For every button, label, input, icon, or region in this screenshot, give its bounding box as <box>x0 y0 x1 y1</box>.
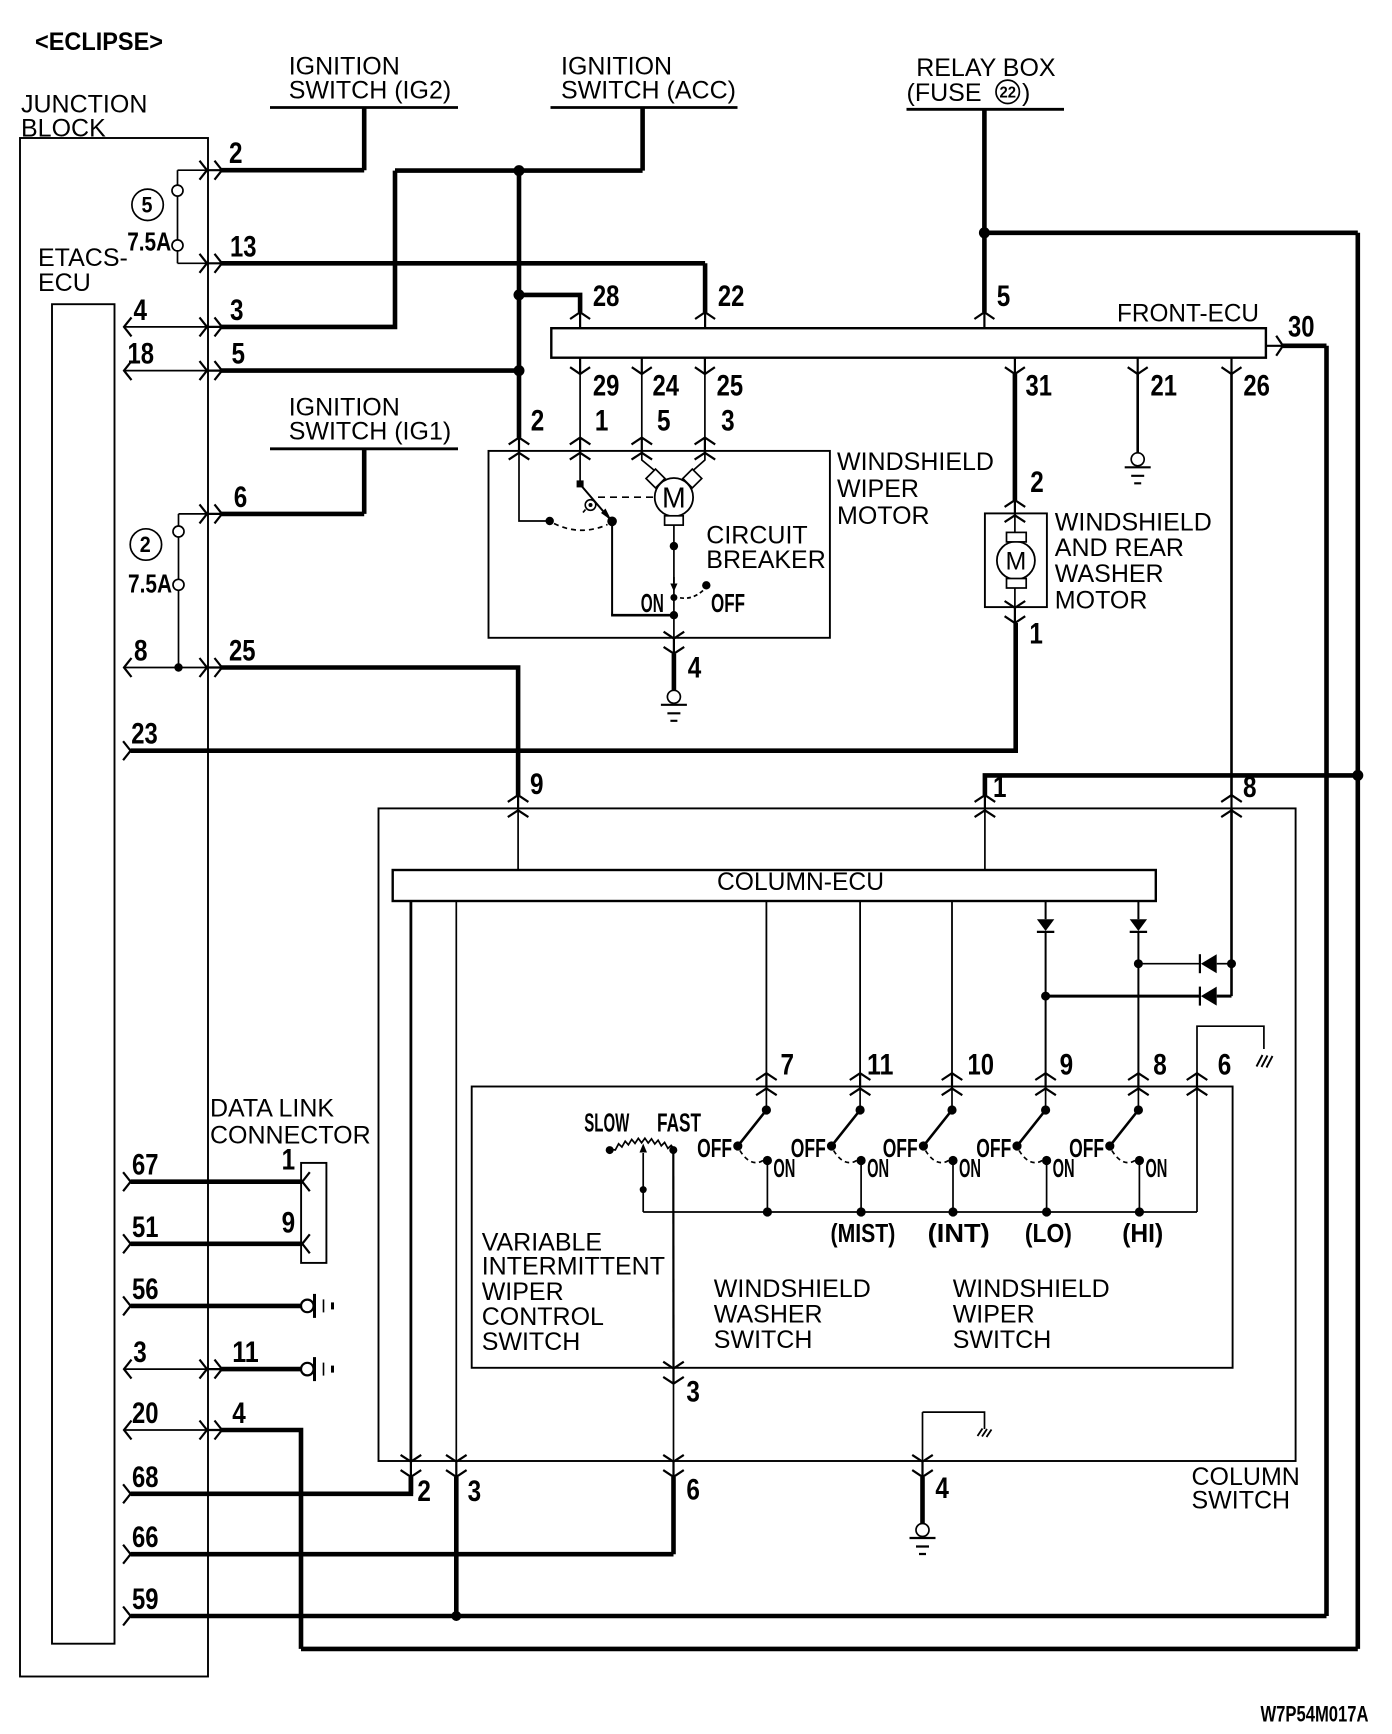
svg-text:WIPER: WIPER <box>482 1278 564 1306</box>
svg-text:(MIST): (MIST) <box>831 1218 896 1248</box>
svg-text:OFF: OFF <box>976 1133 1011 1163</box>
switch 11 connector <box>850 1073 871 1095</box>
rheostat resistor element <box>606 1146 614 1154</box>
mechanical link dashed <box>598 496 653 498</box>
circled 22 fuse number <box>996 80 1019 103</box>
ETACS pin 67 wire <box>123 1172 131 1191</box>
wire relay to right edge <box>984 231 1357 236</box>
switch 9 contacts <box>1045 1087 1047 1111</box>
cross diode lower <box>1046 995 1200 998</box>
junction block pin 6 wire <box>179 513 208 515</box>
svg-text:51: 51 <box>132 1211 159 1244</box>
svg-text:8: 8 <box>1153 1049 1167 1082</box>
svg-text:ECU: ECU <box>38 269 91 297</box>
motor box top connectors <box>509 438 530 460</box>
switch 8 wire to bus <box>1138 1161 1140 1213</box>
svg-text:28: 28 <box>593 280 620 313</box>
svg-text:7.5A: 7.5A <box>128 569 172 599</box>
pin 6 ground L wire <box>1197 1026 1264 1073</box>
svg-text:CONTROL: CONTROL <box>482 1303 604 1331</box>
svg-text:10: 10 <box>968 1049 995 1082</box>
ETACS pin 8 / block pin 25 wire <box>124 658 132 677</box>
wire right edge vertical down to bottom <box>1356 233 1361 1649</box>
column ECU pin 1 wire from right edge <box>985 775 1358 795</box>
contact square pin1 <box>577 480 584 487</box>
ignition switch IG2 lead <box>362 108 367 171</box>
svg-text:2: 2 <box>417 1475 431 1508</box>
fuse 2 symbol <box>178 514 180 668</box>
svg-text:26: 26 <box>1243 369 1270 402</box>
svg-text:W7P54M017A: W7P54M017A <box>1261 1702 1369 1727</box>
pin 30 connector <box>1266 336 1283 356</box>
breaker center wire <box>673 525 675 615</box>
svg-text:OFF: OFF <box>791 1133 826 1163</box>
svg-text:23: 23 <box>131 718 158 751</box>
svg-text:AND REAR: AND REAR <box>1055 534 1184 562</box>
junction block pin 2 wire <box>178 169 208 171</box>
svg-text:68: 68 <box>132 1461 159 1494</box>
svg-text:9: 9 <box>1060 1049 1074 1082</box>
svg-text:M: M <box>662 482 686 514</box>
svg-text:11: 11 <box>867 1049 894 1082</box>
wire bar to wiper switch 10 <box>951 901 953 1073</box>
svg-text:WINDSHIELD: WINDSHIELD <box>837 448 994 476</box>
svg-text:3: 3 <box>686 1376 700 1409</box>
svg-text:(INT): (INT) <box>928 1218 990 1248</box>
switch 11 contacts <box>859 1087 861 1111</box>
svg-text:SWITCH (ACC): SWITCH (ACC) <box>561 77 736 105</box>
breaker left wire <box>611 521 613 615</box>
ground wiper motor <box>661 690 687 721</box>
svg-text:1: 1 <box>595 405 609 438</box>
FRONT-ECU bottom pins 31 21 26 <box>1005 358 1025 375</box>
ignition switch ACC lead <box>640 108 645 171</box>
column switch pin 4 chassis L wire <box>923 1412 985 1429</box>
wire pin5 to brush <box>642 451 655 471</box>
windshield wiper motor box <box>489 451 830 638</box>
switch 10 contacts <box>951 1087 953 1111</box>
rheostat wiper arm <box>642 1153 644 1212</box>
switch 11 wire to bus <box>860 1161 862 1213</box>
svg-text:2: 2 <box>1030 466 1044 499</box>
wire 26 down to column switch pin 8 <box>1230 374 1233 795</box>
svg-text:22: 22 <box>1000 85 1017 102</box>
svg-text:SWITCH: SWITCH <box>482 1328 581 1356</box>
svg-text:SWITCH: SWITCH <box>1192 1487 1291 1515</box>
ignition switch IG1 lead <box>362 449 367 514</box>
ETACS pin 66 wire <box>123 1545 131 1564</box>
svg-text:56: 56 <box>132 1273 159 1306</box>
wire pin 6 down to ETACS 66 run <box>671 1477 676 1554</box>
junction block outline <box>20 138 208 1677</box>
svg-text:<ECLIPSE>: <ECLIPSE> <box>35 28 163 56</box>
wire column ECU pin8 internal <box>1230 808 1233 996</box>
svg-text:WIPER: WIPER <box>953 1300 1035 1328</box>
switch 10 wire to bus <box>952 1161 954 1213</box>
svg-text:66: 66 <box>132 1521 159 1554</box>
svg-text:INTERMITTENT: INTERMITTENT <box>482 1253 665 1281</box>
junction dot branch 28 <box>514 289 525 300</box>
ETACS pin 68 wire <box>123 1484 131 1503</box>
wire bar to wiper switch 7 <box>765 901 767 1073</box>
washer motor internals <box>1014 513 1016 608</box>
svg-text:OFF: OFF <box>711 588 745 618</box>
svg-text:25: 25 <box>229 635 256 668</box>
svg-text:MOTOR: MOTOR <box>1055 586 1148 614</box>
ground pin 21 <box>1125 453 1151 484</box>
wire motor pin2 internal <box>519 451 550 521</box>
svg-text:4: 4 <box>232 1397 246 1430</box>
wire 31 to washer motor <box>1013 374 1018 500</box>
svg-text:WINDSHIELD: WINDSHIELD <box>953 1275 1110 1303</box>
svg-text:1: 1 <box>993 771 1007 804</box>
svg-text:M: M <box>1005 547 1026 575</box>
wire pin 30 to right vertical <box>1283 343 1327 348</box>
svg-text:ON: ON <box>1145 1153 1167 1183</box>
svg-text:1: 1 <box>282 1144 296 1177</box>
svg-text:6: 6 <box>1218 1049 1232 1082</box>
svg-text:2: 2 <box>531 405 545 438</box>
svg-text:7.5A: 7.5A <box>127 227 171 257</box>
svg-text:(FUSE: (FUSE <box>907 79 982 107</box>
wire bar to switch pin 2 <box>409 901 412 1462</box>
svg-text:25: 25 <box>717 369 744 402</box>
ETACS-ECU box <box>52 304 115 1644</box>
junction dot pin5 wire <box>514 365 525 376</box>
column ECU pin 8 connector <box>1221 795 1242 817</box>
wiper switch inner box <box>472 1087 1233 1368</box>
svg-text:9: 9 <box>530 768 544 801</box>
svg-text:SWITCH: SWITCH <box>714 1326 813 1354</box>
pin 6 wire and connector <box>1196 1087 1198 1213</box>
svg-text:20: 20 <box>132 1397 159 1430</box>
wire 29 to motor pin 1 <box>579 374 581 438</box>
switch common bus <box>643 1211 1197 1213</box>
svg-text:WINDSHIELD: WINDSHIELD <box>1055 509 1212 537</box>
svg-text:3: 3 <box>721 405 735 438</box>
svg-text:11: 11 <box>232 1336 259 1369</box>
ETACS pin 59 wire <box>123 1607 131 1626</box>
svg-text:30: 30 <box>1288 311 1315 344</box>
svg-text:WINDSHIELD: WINDSHIELD <box>714 1275 871 1303</box>
svg-text:SWITCH: SWITCH <box>953 1326 1052 1354</box>
wire 24 to motor pin 5 <box>641 374 643 438</box>
wire 25 to motor pin 3 <box>704 374 706 438</box>
svg-text:3: 3 <box>468 1475 482 1508</box>
switch 7 wire to bus <box>766 1161 768 1213</box>
svg-text:1: 1 <box>1029 618 1043 651</box>
svg-text:4: 4 <box>134 294 148 327</box>
svg-text:13: 13 <box>230 230 257 263</box>
svg-text:2: 2 <box>140 532 151 557</box>
svg-text:(LO): (LO) <box>1025 1218 1072 1248</box>
svg-text:67: 67 <box>132 1149 159 1182</box>
circled fuse number 5 <box>132 189 163 220</box>
svg-text:2: 2 <box>229 137 243 170</box>
svg-text:ETACS-: ETACS- <box>38 244 128 272</box>
wire ACC down to wiper motor pin 2 <box>517 171 522 438</box>
svg-text:WASHER: WASHER <box>714 1300 823 1328</box>
svg-text:5: 5 <box>997 280 1011 313</box>
svg-text:24: 24 <box>653 369 680 402</box>
svg-text:9: 9 <box>282 1207 296 1240</box>
svg-text:22: 22 <box>718 280 745 313</box>
svg-text:OFF: OFF <box>697 1133 732 1163</box>
svg-text:WASHER: WASHER <box>1055 560 1164 588</box>
park switch dashed arc <box>554 524 608 531</box>
wire FAST end down through pin 3 <box>672 1150 674 1369</box>
svg-text:WIPER: WIPER <box>837 475 919 503</box>
svg-text:5: 5 <box>657 405 671 438</box>
motor brush terminals <box>646 469 665 488</box>
svg-text:): ) <box>1022 79 1030 107</box>
switch pin 3 connector <box>446 1455 467 1477</box>
switch 9 connector <box>1035 1073 1056 1095</box>
ETACS pin 4 / block pin 3 wire <box>124 317 132 336</box>
svg-text:SWITCH (IG2): SWITCH (IG2) <box>289 77 452 105</box>
svg-text:7: 7 <box>781 1049 795 1082</box>
svg-text:DATA LINK: DATA LINK <box>210 1094 334 1122</box>
svg-text:3: 3 <box>230 294 244 327</box>
contact dot park <box>546 517 554 525</box>
washer motor bottom connector <box>1005 601 1026 623</box>
svg-text:SLOW: SLOW <box>584 1108 629 1138</box>
breaker arrow <box>673 577 675 583</box>
ETACS pin 18 / block pin 5 wire <box>124 361 132 380</box>
circled fuse number 2 <box>130 529 161 560</box>
ETACS pin 56 wire not connected <box>123 1296 131 1315</box>
wire to FRONT-ECU pin 22 <box>703 263 708 312</box>
svg-text:OFF: OFF <box>883 1133 918 1163</box>
svg-text:18: 18 <box>128 338 155 371</box>
wire ACC run <box>395 168 643 173</box>
junction dot ACC <box>514 165 525 176</box>
column switch outer box <box>379 808 1296 1461</box>
diode 2 on HI wire <box>1137 901 1139 919</box>
svg-text:OFF: OFF <box>1069 1133 1104 1163</box>
bottom wire pin 4 to right edge <box>301 1647 1358 1652</box>
COLUMN-ECU bar <box>393 870 1156 901</box>
switch 8 contacts <box>1137 1087 1139 1111</box>
wire 30 vertical down to pin 59 run <box>1324 346 1329 1616</box>
switch pin 2 connector <box>401 1455 422 1477</box>
svg-text:31: 31 <box>1026 369 1053 402</box>
wire 21 to ground <box>1136 374 1139 453</box>
svg-text:MOTOR: MOTOR <box>837 502 930 530</box>
wire pin3 to brush <box>693 451 705 471</box>
svg-text:COLUMN-ECU: COLUMN-ECU <box>717 868 884 896</box>
junction dot pin 59 branch <box>451 1611 461 1621</box>
motor lower block <box>665 516 684 525</box>
svg-text:BREAKER: BREAKER <box>706 546 825 574</box>
switch 8 connector <box>1128 1073 1149 1095</box>
cam symbol <box>585 500 596 511</box>
breaker junction dot <box>670 611 678 619</box>
svg-text:FAST: FAST <box>657 1108 701 1138</box>
wire branch to FRONT-ECU pin 28 <box>519 295 580 312</box>
switch 7 contacts <box>765 1087 767 1111</box>
svg-text:4: 4 <box>688 652 702 685</box>
svg-text:5: 5 <box>232 338 246 371</box>
svg-text:6: 6 <box>686 1474 700 1507</box>
junction dot fuse2 on pin25 wire <box>174 663 182 671</box>
cross diode upper <box>1138 963 1200 965</box>
wiper motor M <box>655 478 693 516</box>
wire bar to switch pin 3 <box>455 901 457 1462</box>
switch 7 connector <box>756 1073 777 1095</box>
wire bar to wiper switch 11 <box>859 901 861 1073</box>
junction block pin 13 wire <box>178 262 208 264</box>
svg-text:(HI): (HI) <box>1122 1218 1163 1248</box>
svg-text:3: 3 <box>133 1336 147 1369</box>
FRONT-ECU bar <box>551 328 1266 358</box>
fuse 5 symbol <box>177 170 179 263</box>
svg-text:FRONT-ECU: FRONT-ECU <box>1117 299 1259 327</box>
ETACS pin 51 wire <box>123 1234 131 1253</box>
park switch blade <box>581 485 609 518</box>
svg-text:ON: ON <box>641 588 664 618</box>
svg-text:21: 21 <box>1151 369 1178 402</box>
svg-text:29: 29 <box>593 369 620 402</box>
breaker OFF contact <box>702 581 710 589</box>
switch 9 wire to bus <box>1046 1161 1048 1213</box>
diode 1 on LO wire <box>1045 901 1047 919</box>
column ECU pin 9 connector <box>508 795 529 817</box>
svg-text:5: 5 <box>142 193 153 218</box>
junction dot relay branch <box>979 227 990 238</box>
svg-text:8: 8 <box>134 635 148 668</box>
junction dot right edge pin1 wire <box>1352 770 1363 781</box>
svg-text:SWITCH (IG1): SWITCH (IG1) <box>289 417 452 445</box>
data link connector box <box>301 1163 326 1263</box>
pin 4 ground wire <box>920 1477 925 1524</box>
svg-text:RELAY BOX: RELAY BOX <box>916 54 1056 82</box>
ETACS pin 23 wire <box>123 741 131 760</box>
relay box fuse 22 lead wire <box>982 109 987 312</box>
chassis ground pin 6 <box>1257 1055 1273 1068</box>
FRONT-ECU bottom pins 29 24 25 <box>570 358 590 375</box>
svg-text:4: 4 <box>935 1472 949 1505</box>
ETACS pin 20 / block pin 4 wire <box>124 1421 132 1440</box>
ETACS pin 3 / block pin 11 wire not connected <box>124 1360 132 1379</box>
washer motor box <box>1005 500 1026 522</box>
switch 10 connector <box>942 1073 963 1095</box>
svg-text:59: 59 <box>132 1583 159 1616</box>
wire motor pin1 internal <box>579 451 581 481</box>
wire to motor ground <box>673 615 675 638</box>
svg-text:8: 8 <box>1243 771 1257 804</box>
column switch pin 4 connector <box>912 1455 933 1477</box>
svg-text:6: 6 <box>234 481 248 514</box>
